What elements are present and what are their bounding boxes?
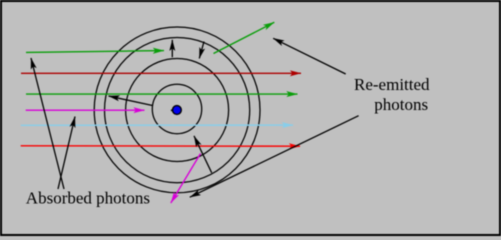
incoming magenta photon xyxy=(26,109,145,111)
orbit circle 1 (innermost) xyxy=(152,84,201,133)
electron transition arrow up (absorption, top) xyxy=(171,40,173,57)
annotation arrow: absorbed photons to green line 1 xyxy=(31,58,64,189)
annotation arrow: re-emitted photons to magenta arrow xyxy=(190,116,359,198)
incoming green photon 1 xyxy=(26,51,164,53)
annotation arrow: absorbed photons to cyan/magenta lines xyxy=(58,117,75,190)
incoming red photon xyxy=(21,145,300,147)
svg-text:photons: photons xyxy=(374,95,428,114)
electron transition arrow inward (emission, bottom) xyxy=(194,136,212,173)
svg-text:Absorbed photons: Absorbed photons xyxy=(26,189,150,208)
nucleus xyxy=(173,106,182,115)
re-emitted magenta photon (diagonal) xyxy=(171,154,201,204)
orbit circle 3 xyxy=(105,38,250,183)
svg-text:Re-emitted: Re-emitted xyxy=(354,75,430,94)
orbit circle 4 (outermost) xyxy=(94,27,260,193)
incoming cyan photon xyxy=(21,124,293,126)
electron transition arrow outward (absorption, to upper-left) xyxy=(109,96,153,106)
re-emitted green photon (diagonal) xyxy=(214,22,275,53)
incoming green photon 2 xyxy=(26,93,298,95)
orbit circle 2 xyxy=(126,59,229,162)
annotation arrow: re-emitted photons to green arrow xyxy=(273,38,346,74)
tick at nucleus left edge xyxy=(171,109,173,111)
incoming dark-red photon xyxy=(21,72,301,74)
electron transition arrow inward (emission, top right) xyxy=(199,42,204,59)
